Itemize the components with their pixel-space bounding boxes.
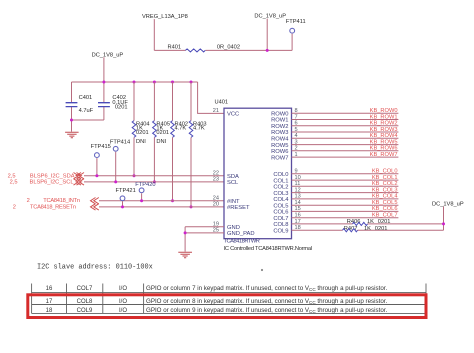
svg-text:COL3: COL3	[273, 191, 288, 197]
svg-text:#RESET: #RESET	[227, 205, 250, 211]
svg-text:SCL: SCL	[227, 180, 239, 186]
svg-text:DNI: DNI	[156, 139, 166, 145]
wire gnd drop	[184, 227, 186, 252]
svg-text:I/O: I/O	[119, 286, 127, 292]
svg-text:ROW1: ROW1	[271, 118, 288, 124]
capacitor C402	[98, 95, 128, 110]
svg-text:TCA8418_RESETn: TCA8418_RESETn	[30, 204, 76, 210]
svg-text:0201: 0201	[136, 130, 149, 136]
svg-text:IC Controlled TCA8418RTWR.Norm: IC Controlled TCA8418RTWR.Normal	[224, 246, 313, 252]
wire	[266, 19, 268, 51]
junction	[171, 199, 174, 202]
net label BLSP6_I2C_SCL	[10, 180, 74, 186]
junction	[114, 180, 117, 183]
wire	[443, 207, 445, 231]
highlight box	[28, 295, 426, 318]
svg-text:KB_ROW4: KB_ROW4	[370, 133, 398, 139]
svg-text:FTP415: FTP415	[91, 144, 111, 150]
test point FTP420	[135, 182, 155, 201]
wire ROW2	[292, 125, 399, 127]
net label TCA8418_INTn	[27, 198, 80, 204]
net label TCA8418_RESETn	[13, 204, 76, 210]
svg-text:U401: U401	[215, 99, 229, 105]
stray mark	[261, 269, 263, 271]
resistor R402	[171, 82, 188, 201]
off-page connector RESET	[91, 204, 99, 210]
wire VCC feed	[198, 82, 224, 113]
junction	[102, 81, 105, 84]
svg-text:ROW0: ROW0	[271, 111, 288, 117]
resistor R404	[132, 82, 149, 176]
svg-text:GPIO or column 7 in keypad mat: GPIO or column 7 in keypad matrix. If un…	[146, 285, 387, 292]
wire COL7	[292, 217, 399, 219]
svg-text:KB_COL1: KB_COL1	[372, 175, 398, 181]
svg-text:KB_COL5: KB_COL5	[372, 200, 398, 206]
wire	[153, 19, 155, 50]
junction	[442, 222, 445, 225]
svg-text:2,5: 2,5	[8, 173, 16, 179]
junction	[133, 81, 136, 84]
svg-text:I2C slave address: 0110-100x: I2C slave address: 0110-100x	[37, 263, 153, 271]
junction	[153, 180, 156, 183]
capacitor C401	[66, 95, 94, 114]
svg-text:KB_ROW5: KB_ROW5	[370, 139, 398, 145]
svg-text:COL1: COL1	[273, 178, 288, 184]
wire GND_PAD pin 25	[185, 232, 224, 234]
svg-text:KB_ROW3: KB_ROW3	[370, 127, 398, 133]
wire ROW6	[292, 150, 399, 152]
IC U401 body	[224, 108, 292, 239]
svg-text:0201: 0201	[378, 219, 391, 225]
wire ROW0	[292, 112, 399, 114]
svg-text:ROW4: ROW4	[271, 137, 289, 143]
off-page connector SCL	[74, 179, 85, 185]
table borders	[32, 284, 426, 314]
resistor R407	[343, 226, 388, 232]
wire	[154, 49, 292, 51]
test point FTP415	[91, 144, 111, 176]
wire INT	[99, 200, 224, 202]
resistor R406	[347, 219, 391, 226]
svg-text:KB_ROW0: KB_ROW0	[370, 108, 398, 114]
svg-text:2: 2	[13, 204, 16, 210]
resistor R403	[189, 82, 206, 207]
resistor R401	[168, 44, 240, 52]
resistor R405	[153, 82, 170, 182]
wire COL2	[292, 185, 399, 187]
svg-text:FTP414: FTP414	[110, 139, 130, 145]
svg-text:COL8: COL8	[77, 299, 93, 305]
wire COL6	[292, 210, 399, 212]
off-page connector SDA	[74, 173, 85, 179]
wire	[71, 82, 73, 132]
junction	[190, 81, 193, 84]
svg-text:KB_COL7: KB_COL7	[372, 213, 398, 219]
svg-text:1K: 1K	[364, 226, 371, 232]
svg-text:COL5: COL5	[273, 203, 288, 209]
svg-text:COL2: COL2	[273, 185, 288, 191]
junction	[70, 119, 73, 122]
junction	[133, 174, 136, 177]
svg-text:COL6: COL6	[273, 210, 288, 216]
svg-text:ROW6: ROW6	[271, 149, 288, 155]
svg-text:18: 18	[46, 308, 53, 314]
svg-text:24: 24	[213, 196, 219, 202]
svg-text:COL4: COL4	[273, 197, 289, 203]
svg-text:2: 2	[27, 198, 30, 204]
svg-text:DC_1V8_uP: DC_1V8_uP	[254, 14, 286, 20]
svg-text:TCA8418_INTn: TCA8418_INTn	[43, 198, 80, 204]
svg-text:0201: 0201	[156, 130, 169, 136]
svg-text:FTP421: FTP421	[116, 188, 136, 194]
svg-text:KB_COL4: KB_COL4	[372, 194, 398, 200]
wire	[72, 57, 104, 120]
wire ROW5	[292, 144, 399, 146]
svg-text:KB_ROW2: KB_ROW2	[370, 121, 398, 127]
wire ROW7	[292, 156, 399, 158]
junction	[153, 81, 156, 84]
svg-text:VCC: VCC	[227, 112, 239, 118]
junction	[190, 205, 193, 208]
svg-text:COL7: COL7	[273, 216, 288, 222]
junction	[171, 81, 174, 84]
wire COL8	[292, 223, 444, 225]
svg-text:17: 17	[46, 299, 53, 305]
junction	[95, 174, 98, 177]
off-page connector INT	[91, 198, 99, 204]
table row pin 16	[46, 286, 128, 292]
svg-text:23: 23	[213, 177, 219, 183]
wire GND pin 19	[185, 226, 224, 228]
svg-text:BLSP6_I2C_SDA: BLSP6_I2C_SDA	[30, 173, 75, 179]
test point FTP421	[116, 188, 136, 207]
svg-text:DC_1V8_uP: DC_1V8_uP	[432, 201, 464, 207]
wire COL5	[292, 204, 399, 206]
wire SDA	[84, 175, 224, 177]
svg-text:R401: R401	[168, 44, 182, 50]
junction	[140, 199, 143, 202]
wire COL3	[292, 192, 399, 194]
svg-text:COL0: COL0	[273, 172, 288, 178]
wire ROW4	[292, 137, 399, 139]
svg-text:0201: 0201	[375, 226, 388, 232]
svg-text:ROW2: ROW2	[271, 124, 288, 130]
svg-text:0R_0402: 0R_0402	[217, 44, 240, 50]
svg-text:SDA: SDA	[227, 174, 239, 180]
test point FTP411	[286, 19, 306, 50]
ground	[65, 132, 79, 138]
svg-text:4.7K: 4.7K	[193, 126, 205, 132]
wire COL4	[292, 198, 399, 200]
svg-text:KB_COL3: KB_COL3	[372, 187, 398, 193]
svg-text:FTP420: FTP420	[135, 182, 155, 188]
wire COL1	[292, 179, 399, 181]
svg-text:COL9: COL9	[77, 308, 93, 314]
test point FTP414	[110, 139, 130, 182]
svg-text:0201: 0201	[115, 105, 128, 111]
net label BLSP6_I2C_SDA	[8, 173, 75, 179]
svg-text:KB_COL0: KB_COL0	[372, 169, 398, 175]
wire ROW3	[292, 131, 399, 133]
svg-text:ROW7: ROW7	[271, 155, 288, 161]
ground	[178, 252, 192, 258]
junction	[121, 205, 124, 208]
svg-text:KB_ROW6: KB_ROW6	[370, 146, 398, 152]
svg-text:GND_PAD: GND_PAD	[227, 231, 255, 237]
junction	[266, 49, 269, 52]
svg-text:GPIO or column 9 in keypad mat: GPIO or column 9 in keypad matrix. If un…	[146, 307, 387, 314]
wire ROW1	[292, 119, 399, 121]
svg-text:KB_COL2: KB_COL2	[372, 181, 398, 187]
svg-text:I/O: I/O	[119, 299, 127, 305]
svg-text:COL7: COL7	[77, 286, 93, 292]
svg-text:20: 20	[213, 202, 219, 208]
svg-text:4.7uF: 4.7uF	[79, 108, 94, 114]
svg-text:DNI: DNI	[136, 139, 146, 145]
svg-text:COL8: COL8	[273, 222, 288, 228]
svg-text:ROW3: ROW3	[271, 130, 288, 136]
wire RESET	[99, 206, 224, 208]
svg-text:KB_COL6: KB_COL6	[372, 206, 398, 212]
svg-text:1K: 1K	[367, 219, 374, 225]
svg-text:16: 16	[46, 286, 53, 292]
wire COL9	[292, 229, 444, 231]
svg-text:GPIO or column 8 in keypad mat: GPIO or column 8 in keypad matrix. If un…	[146, 298, 387, 305]
svg-text:DC_1V8_uP: DC_1V8_uP	[92, 53, 124, 59]
svg-text:ROW5: ROW5	[271, 143, 288, 149]
svg-text:21: 21	[213, 108, 219, 114]
svg-text:BLSP6_I2C_SCL: BLSP6_I2C_SCL	[30, 180, 74, 186]
svg-text:FTP411: FTP411	[286, 19, 306, 25]
junction	[184, 231, 187, 234]
svg-text:COL9: COL9	[273, 228, 288, 234]
wire COL0	[292, 173, 399, 175]
wire SCL	[84, 181, 224, 183]
svg-text:VREG_L13A_1P8: VREG_L13A_1P8	[142, 14, 188, 20]
svg-text:#INT: #INT	[227, 199, 240, 205]
table row pin 17	[46, 299, 128, 305]
power bus wire	[72, 81, 198, 83]
table row pin 18	[46, 308, 128, 314]
svg-text:2,5: 2,5	[10, 180, 18, 186]
svg-text:C401: C401	[79, 95, 93, 101]
svg-text:I/O: I/O	[119, 308, 127, 314]
svg-text:TCA8418RTWR: TCA8418RTWR	[224, 238, 260, 244]
svg-text:4.7K: 4.7K	[175, 126, 187, 132]
svg-text:22: 22	[213, 171, 219, 177]
svg-text:KB_ROW7: KB_ROW7	[370, 152, 398, 158]
svg-text:KB_ROW1: KB_ROW1	[370, 114, 398, 120]
